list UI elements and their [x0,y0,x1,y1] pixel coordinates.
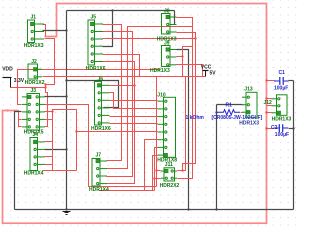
wire red net B horizontal y190.5 [99,190,155,192]
connector J9 [162,46,177,67]
wire red J8 pin2 branch to J7 pin2 [107,27,193,169]
node black y149.9 [65,148,67,150]
wire black C1 right [289,80,294,82]
wire red J6 pin1 [110,85,135,87]
wire black C-right vertical x293.8 [293,81,295,210]
node red J10r7 [153,177,155,179]
wire red J8 pin3 down [177,33,196,171]
wire red J9 pin3 [177,65,203,77]
wire red J11 pin2 left [155,178,161,180]
wire red 3.3V rail to J3 row5 right [11,87,46,89]
connector J12 [272,95,288,116]
wire red J9 pin2 [177,56,183,58]
svg-text:J13: J13 [244,86,253,92]
node red J6p1 [133,84,135,86]
svg-text:HDR1X4: HDR1X4 [24,170,44,176]
wire red VCC rail y76.4 [43,76,206,78]
wire red J2 pin1 [43,69,46,71]
wire red net A vertical x156.9 [156,77,158,187]
svg-text:100µF: 100µF [275,132,289,138]
node ground x217 [215,208,217,210]
wire red J10 row6 [145,140,158,191]
svg-text:J6: J6 [98,76,104,82]
node red J11 left net [155,169,157,171]
node ground x189 [187,208,189,210]
svg-text:100µF: 100µF [274,86,288,92]
wire red J3 row4 right to J4 pin1 [45,120,53,142]
wire red C1 left [267,80,275,82]
svg-text:VCC: VCC [201,64,212,70]
node red J10r5 tap [75,130,77,132]
svg-text:5V: 5V [210,71,217,77]
resistor R1 [217,110,240,115]
wire red J8p2-J9p2 tie [183,47,193,77]
wire red J8 pin1 vertical to J11 [177,18,193,179]
capacitor C1 [274,77,289,85]
connector J2 [28,64,42,79]
wire red long y69.4 [18,70,161,105]
svg-text:J11: J11 [165,162,173,168]
svg-text:HDR1X3: HDR1X3 [272,116,292,122]
connector J5 [88,20,103,65]
svg-text:J4: J4 [33,132,39,138]
wire red J3 row4/5 left to pink [19,111,22,120]
wire black R1 to J13 pin2 [217,104,243,106]
wire red under J4 [43,157,53,171]
wire black J4 pin2 [45,149,67,151]
node red x45.8 y84 [44,83,46,85]
wire black main vertical x66.5 [66,11,68,210]
wire black J5 pin4 riser [103,11,113,47]
POWER SYMBOLS [3,71,209,215]
wire red C2 left [267,128,274,130]
wire black J3 row1 right [45,96,67,98]
svg-text:HDR1X2: HDR1X2 [25,80,45,86]
svg-text:J9: J9 [164,40,170,46]
node C2 right [292,127,294,129]
wire red J5 pin1 to J7 pin1 [103,25,122,161]
power VDD 3.3V symbol [3,78,12,88]
node black y96.9 [65,95,67,97]
wire red J4 pin4 [45,164,53,166]
wire red J10 row7 [155,148,158,191]
node red J12p3 tap [265,111,267,113]
wire red J5 pin2 to J7 pin3 [103,32,133,177]
svg-text:C2: C2 [271,125,278,131]
wire red J5 pin3 long [103,38,196,40]
TEXT LABELS [2,64,216,83]
connector J6 [95,82,110,126]
wire black J1 pin2 [43,30,67,32]
wire red J5 pin5 to VCC rail [103,55,140,77]
svg-text:C1: C1 [279,70,286,76]
svg-text:[CR0805-JW-102GLF]: [CR0805-JW-102GLF] [212,115,263,121]
svg-text:1 kOhm: 1 kOhm [186,115,205,121]
svg-text:3.3V: 3.3V [14,78,25,84]
wire red R1 to J13 pin1 [241,112,243,114]
svg-text:HDR2X2: HDR2X2 [160,183,180,189]
connector J4 [30,138,45,171]
wire red J12 pin1 stub [267,98,272,100]
wire red J10 row8 [153,156,158,191]
wire black ground rail [15,209,294,211]
svg-text:J5: J5 [91,14,97,20]
wire black top horizontal y10 [67,10,175,12]
wire red J3 row3 right J4 pin3 J10 row5 [45,111,53,113]
svg-text:J3: J3 [31,88,37,94]
wire red J10 row5 long [77,131,158,133]
svg-text:HDR1X3: HDR1X3 [150,68,170,74]
node red C2 tap [265,127,267,129]
node red J9p2 tie [181,55,183,57]
node red J12p1 tap [265,97,267,99]
connector J7 [92,159,107,187]
wire red J6 pin2 to J10 row2 [110,93,158,109]
wire red J3 row5 left [19,120,22,127]
svg-text:R1: R1 [226,103,233,109]
wire black R1 left to ground [216,105,218,210]
connector J13 [242,92,257,117]
node red J11 riser [181,169,183,171]
node R1 left [215,111,217,113]
wire red J1 pin3 to J2 pin1 [45,39,55,85]
svg-text:J8: J8 [164,8,170,14]
ground symbol [63,212,71,215]
svg-text:HDR1X3: HDR1X3 [239,121,259,127]
wire red J6 pin3 to J10 row1 [110,100,158,102]
svg-text:HDR1X6: HDR1X6 [91,126,111,132]
wire black J8 pin2 drop [174,11,176,25]
svg-text:VDD: VDD [2,67,13,73]
connector J11 [161,168,178,181]
wire red J12 pin3 stub [267,112,272,114]
svg-text:J7: J7 [96,153,102,159]
svg-text:J1: J1 [31,14,37,20]
wire red J6 pin5 to J10 row3 [110,116,158,118]
wire black J3 row3 left to ground rail [15,112,22,210]
node black top x112 [111,9,113,11]
svg-text:HDR1X4: HDR1X4 [89,187,109,193]
node J1p2/black [65,29,67,31]
node pink y110 [6,109,8,111]
wire red J3 row2 right down x88 [45,105,157,187]
node red J5p3/J8p3 [194,37,196,39]
node red C1 tap [265,79,267,81]
capacitor C2 [274,124,288,132]
wire red J4 pin3 riser [45,110,77,171]
svg-text:HDR1X6: HDR1X6 [86,66,106,72]
wire red J6 pin6 to J10 row4 [110,123,158,125]
connector J3 [22,94,45,131]
node black y81 [65,79,67,81]
wire pink net 3.3V highlight top [3,4,267,224]
power VCC 5V symbol [203,71,209,77]
wire black J9 pin1 drop [177,50,189,210]
svg-text:J12: J12 [264,100,273,106]
svg-text:J2: J2 [31,59,37,65]
connector J8 [162,14,177,35]
connector J10 [158,97,176,157]
wire black J6 pin4 loop [67,81,119,108]
node red J3r3R [51,110,53,112]
wire red J12 pin2 stub [267,105,272,107]
wire black C2 right [289,128,294,130]
svg-text:HDR1X3: HDR1X3 [24,43,44,49]
node ground x66.5 [65,208,67,210]
wire red J11 pin1 right riser [178,77,186,171]
wire red J5 pin6 to J7 pin4 [103,62,135,184]
node red x45.8 y87.4 [44,86,46,88]
connector J1 [28,20,45,43]
wire red J1 pin1 [43,25,46,37]
wire red J11 pin1 left [157,170,161,172]
svg-text:J10: J10 [157,92,166,98]
